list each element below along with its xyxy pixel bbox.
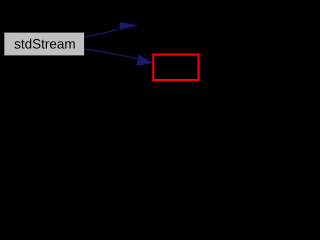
svg-text:stdStream: stdStream: [14, 37, 76, 52]
arrowhead edge1: [120, 22, 138, 29]
node truncated (red box): [153, 55, 198, 81]
arrowhead edge2: [137, 55, 153, 66]
wire edge1 (to top-right node): [85, 30, 119, 38]
wire edge2 (to red node): [84, 49, 137, 59]
node stdStream (grey box): [4, 32, 85, 56]
